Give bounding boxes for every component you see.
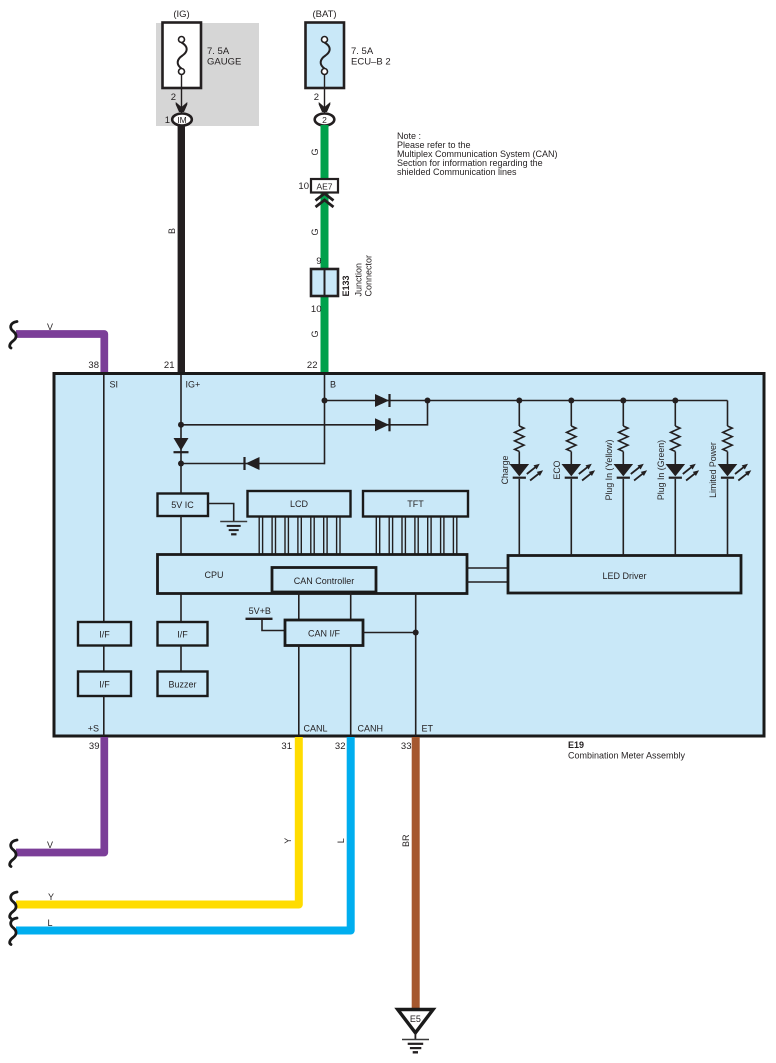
wire CAN I/F to ET node xyxy=(363,632,416,634)
I/F block (SI upper) xyxy=(78,622,131,646)
combination meter box E19 xyxy=(54,374,764,737)
svg-text:V: V xyxy=(47,840,53,850)
I/F block (SI lower) xyxy=(78,672,131,697)
svg-text:Plug In (Yellow): Plug In (Yellow) xyxy=(604,440,614,501)
diode D4 (B to IG+ node) xyxy=(245,457,260,470)
svg-text:7. 5A: 7. 5A xyxy=(207,46,230,57)
wire CAN Controller to CAN I/F (CANH) xyxy=(350,592,352,620)
svg-text:L: L xyxy=(47,918,52,928)
wire BR (brown) xyxy=(412,737,420,1010)
svg-text:Y: Y xyxy=(283,838,293,844)
wire break symbol (violet top) xyxy=(10,322,17,349)
wire CAN Controller to CAN I/F (CANL) xyxy=(298,592,300,620)
LCD to CPU bus xyxy=(259,517,340,555)
svg-text:7. 5A: 7. 5A xyxy=(351,46,374,57)
svg-text:21: 21 xyxy=(164,360,175,371)
wire I/F to Buzzer xyxy=(180,646,182,672)
svg-text:5V IC: 5V IC xyxy=(171,500,194,510)
wire V (violet) bottom xyxy=(16,737,104,853)
wire B to merge node xyxy=(181,463,325,465)
junction connector E133 xyxy=(311,269,338,296)
diode D3 (IG+ down) xyxy=(174,438,189,452)
svg-text:2: 2 xyxy=(314,92,319,103)
wire CANH to pin 32 xyxy=(350,646,352,737)
svg-text:G: G xyxy=(310,148,320,155)
wire ET vertical xyxy=(415,594,417,737)
svg-text:B: B xyxy=(330,380,336,390)
CAN Controller block xyxy=(272,568,376,593)
svg-text:(IG): (IG) xyxy=(173,9,189,20)
svg-text:9: 9 xyxy=(316,256,321,267)
node IG+/B merge junction xyxy=(178,461,184,467)
svg-text:G: G xyxy=(310,228,320,235)
shaded region (IG feed) xyxy=(156,23,259,126)
ground E5 xyxy=(398,1010,433,1053)
LED branch Plug In (Yellow) xyxy=(604,398,647,556)
LCD block xyxy=(248,491,351,517)
5V IC block xyxy=(158,494,209,517)
svg-text:GAUGE: GAUGE xyxy=(207,57,241,68)
svg-text:I/F: I/F xyxy=(99,680,110,690)
wire L (light blue) xyxy=(16,737,351,931)
wire 5V IC to CPU xyxy=(180,516,182,555)
svg-text:SI: SI xyxy=(110,380,119,390)
diode D1 (B to rail) xyxy=(375,394,390,407)
TFT block xyxy=(363,491,468,517)
wire break symbol (yellow) xyxy=(10,892,17,919)
connector arrow (IG) xyxy=(176,102,188,112)
connector oval IM pin 1 xyxy=(172,114,192,126)
svg-text:TFT: TFT xyxy=(407,499,424,509)
wire CPU to I/F (buzzer column) xyxy=(180,594,182,623)
wire break symbol (light blue) xyxy=(10,918,17,945)
wire 5V IC to ground xyxy=(208,504,234,522)
svg-text:Combination Meter Assembly: Combination Meter Assembly xyxy=(568,751,686,761)
node ET junction xyxy=(413,630,419,636)
svg-text:31: 31 xyxy=(281,741,292,752)
wire CANL to pin 31 xyxy=(298,646,300,737)
LED branch Limited Power xyxy=(708,401,751,556)
node B-rail junction xyxy=(322,398,328,404)
svg-text:IM: IM xyxy=(177,115,186,125)
wire G (green) fuse to pin 22 xyxy=(321,125,329,373)
CPU block xyxy=(158,555,468,594)
svg-text:Charge: Charge xyxy=(500,455,510,484)
svg-text:ECU–B 2: ECU–B 2 xyxy=(351,57,391,68)
svg-text:Limited Power: Limited Power xyxy=(708,442,718,498)
svg-text:I/F: I/F xyxy=(99,630,110,640)
svg-text:V: V xyxy=(47,322,53,332)
svg-text:5V+B: 5V+B xyxy=(249,606,271,616)
svg-text:CANH: CANH xyxy=(358,724,384,734)
wire between I/F blocks xyxy=(103,646,105,672)
svg-text:AE7: AE7 xyxy=(316,182,332,192)
svg-text:ET: ET xyxy=(422,724,434,734)
svg-text:10: 10 xyxy=(298,181,309,192)
CAN I/F block xyxy=(285,620,363,646)
svg-text:E133: E133 xyxy=(341,275,351,296)
svg-text:Plug In (Green): Plug In (Green) xyxy=(656,440,666,500)
svg-text:CPU: CPU xyxy=(204,570,223,580)
connector oval 2 xyxy=(315,114,335,126)
wire IG+ vertical xyxy=(180,375,182,493)
svg-text:Buzzer: Buzzer xyxy=(168,680,196,690)
svg-text:LED Driver: LED Driver xyxy=(602,571,646,581)
svg-text:2: 2 xyxy=(171,92,176,103)
wire SI vertical xyxy=(103,375,105,622)
svg-text:L: L xyxy=(336,838,346,843)
svg-text:I/F: I/F xyxy=(177,630,188,640)
svg-text:ECO: ECO xyxy=(552,460,562,479)
wire IG+ branch to rail xyxy=(181,401,428,425)
svg-text:(BAT): (BAT) xyxy=(312,9,336,20)
fuse GAUGE 7.5A xyxy=(163,23,202,89)
LED branch Charge xyxy=(500,398,543,556)
power bar 5V+B xyxy=(246,618,273,620)
ground (5V IC) xyxy=(220,522,247,535)
svg-text:+S: +S xyxy=(88,724,99,734)
svg-text:CAN Controller: CAN Controller xyxy=(294,576,355,586)
bus CPU to LED Driver xyxy=(467,567,508,569)
svg-text:E5: E5 xyxy=(410,1014,421,1024)
svg-text:CANL: CANL xyxy=(304,724,328,734)
wire break symbol (violet bottom) xyxy=(10,840,17,867)
svg-text:33: 33 xyxy=(401,741,412,752)
svg-text:Junction: Junction xyxy=(354,263,364,297)
LED branch ECO xyxy=(552,398,595,556)
svg-text:shielded Communication lines: shielded Communication lines xyxy=(397,167,517,177)
fuse ECU-B 2 7.5A xyxy=(306,23,345,89)
svg-text:BR: BR xyxy=(401,834,411,847)
svg-text:IG+: IG+ xyxy=(186,380,201,390)
shielded line symbol (double chevron) xyxy=(316,194,334,208)
svg-text:B: B xyxy=(167,228,177,234)
wire V (violet) top xyxy=(16,334,104,373)
wire B (black) from IM to pin 21 xyxy=(178,125,185,373)
svg-text:LCD: LCD xyxy=(290,499,309,509)
svg-text:CAN I/F: CAN I/F xyxy=(308,629,341,639)
svg-text:39: 39 xyxy=(89,741,100,752)
svg-text:22: 22 xyxy=(307,360,318,371)
diode D2 (IG+ to rail) xyxy=(375,418,390,431)
wire Y (yellow) xyxy=(16,737,299,905)
Buzzer block xyxy=(158,672,208,697)
connector arrow (BAT) xyxy=(319,102,331,112)
svg-text:1: 1 xyxy=(165,115,170,126)
svg-text:2: 2 xyxy=(322,115,327,125)
wire I/F to pin 39 xyxy=(103,696,105,736)
svg-text:10: 10 xyxy=(311,304,322,315)
svg-text:Connector: Connector xyxy=(364,255,374,297)
node rail merge junction xyxy=(425,398,431,404)
wire fuse to connector xyxy=(324,75,326,115)
TFT to CPU bus xyxy=(376,517,457,555)
svg-text:38: 38 xyxy=(88,360,99,371)
svg-text:E19: E19 xyxy=(568,740,584,750)
wire fuse to connector xyxy=(181,75,183,115)
svg-text:32: 32 xyxy=(335,741,346,752)
node IG+ junction xyxy=(178,422,184,428)
wire LED supply rail xyxy=(325,400,728,402)
LED branch Plug In (Green) xyxy=(656,398,699,556)
wire 5V+B to CAN I/F xyxy=(262,619,285,631)
svg-text:Y: Y xyxy=(48,892,54,902)
svg-text:G: G xyxy=(310,330,320,337)
I/F block (buzzer column) xyxy=(158,622,208,646)
wire B vertical xyxy=(324,375,326,464)
LED Driver block xyxy=(508,556,741,594)
